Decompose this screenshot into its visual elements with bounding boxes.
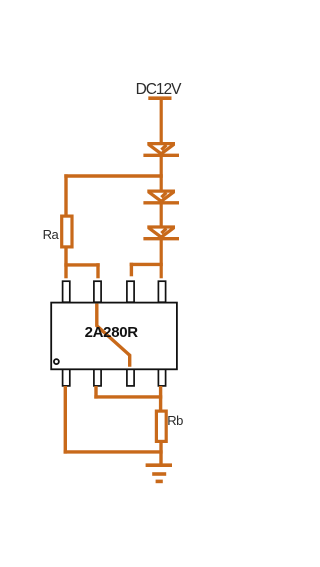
resistor Ra	[62, 216, 72, 247]
pin 3 (top)	[127, 281, 134, 302]
wire stub to pin 7	[130, 263, 133, 277]
pin 5 (bottom, leftmost)	[63, 369, 70, 386]
resistor Rb	[156, 411, 166, 441]
wire branch right: to pin 7 (horizontal)	[130, 263, 163, 266]
pin 4 (top, rightmost)	[158, 281, 165, 302]
wire DC12V terminal to diode D1	[160, 99, 163, 146]
pin 7 (bottom)	[127, 369, 134, 386]
pin 8 (bottom, rightmost)	[158, 369, 165, 386]
power terminal DC12V bar	[148, 96, 171, 100]
svg-text:DC12V: DC12V	[136, 81, 182, 98]
pin 1 (top, leftmost)	[63, 281, 70, 302]
svg-text:2A280R: 2A280R	[85, 324, 139, 341]
svg-text:Rb: Rb	[167, 413, 183, 428]
diode D3	[143, 227, 179, 239]
wire stub to pin 2	[96, 263, 99, 278]
wire pin 6 down	[94, 386, 97, 399]
wire pin 5 to ground node (horizontal)	[64, 450, 163, 453]
wire D2 to D3	[160, 203, 163, 229]
ground	[146, 465, 172, 481]
pin 1 indicator circle	[54, 359, 59, 364]
wire pin 8 down to Rb	[159, 386, 162, 412]
wire pin 5 down	[64, 386, 67, 454]
wire D3 to pin 8 (top right)	[160, 239, 163, 279]
wire Rb to ground	[159, 441, 162, 464]
wire internal diagonal (pin 2 through body)	[97, 304, 130, 367]
svg-text:Ra: Ra	[43, 227, 60, 242]
wire branch down to Ra	[64, 174, 67, 216]
pin 6 (bottom)	[94, 369, 101, 386]
wire branch top: diode chain to Ra (horizontal)	[64, 174, 163, 177]
wire branch left bottom: to pin 2 (horizontal)	[64, 263, 99, 266]
wire D1 to D2	[160, 155, 163, 193]
diode D2	[143, 191, 179, 203]
IC U1 body 2A280R	[51, 303, 177, 370]
pin 2 (top)	[94, 281, 101, 302]
wire pin 6 to Rb top (horizontal)	[94, 395, 162, 398]
wire Ra to pin 1	[64, 247, 67, 278]
diode D1	[143, 144, 179, 156]
